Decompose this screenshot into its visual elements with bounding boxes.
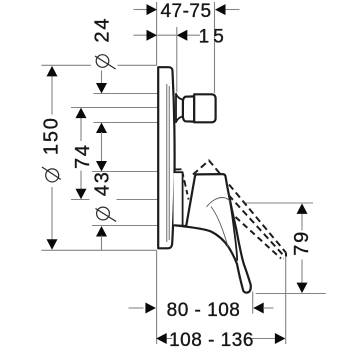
dimension 79 label [291,230,313,256]
dimension 79 top arrow [297,203,308,214]
lever axis extension line (y=198.5) [71,199,90,201]
wall plane extension line top (x=156.6) [156,2,158,65]
dimension 74 label [72,143,94,169]
dimension 74 top arrow [76,108,87,119]
dimension 15 right tail [187,34,200,36]
dimension 47-75 left arrow [147,4,158,15]
dimension 80-108 left arrow [145,303,156,314]
knob top extension line (y=93.5) [93,93,158,95]
dashed lever back edge over collar (open position) [175,169,189,199]
svg-text:24: 24 [92,17,114,43]
dimension 108-136 line right segment [252,338,276,340]
escutcheon plate [158,67,174,248]
dimension 15 left arrow [147,30,158,41]
dimension D150 bottom arrow [47,239,58,250]
dimension 15 span line [158,34,177,36]
dimension D24 bottom arrow [96,123,107,134]
lever collar [174,172,183,225]
dimension D43 bottom arrow [96,226,107,237]
dimension D150 label [40,116,62,182]
svg-text:79: 79 [291,230,313,256]
lever paddle edge line [229,196,237,261]
sleeve extension line (x=176.8) [176,27,178,93]
svg-text:47-75: 47-75 [160,1,211,22]
dashed lever top edge (open position) [193,161,286,253]
dashed lever tip cap (open position) [284,253,287,259]
dimension 47-75 right tail [224,9,240,11]
plate inner face line 2 [168,86,170,240]
dimension 80-108 left tail [129,307,144,309]
dimension 15 left tail [134,34,149,36]
lever body and arm (closed position) [175,174,251,293]
lever bottom extension line (y=225.5) [92,225,158,227]
dimension 108-136 right arrow [275,333,286,344]
dimension D24 top arrow [96,83,107,94]
dimension 74 line upper segment [80,118,82,142]
svg-text:43: 43 [92,170,114,196]
dimension 74 bottom arrow [76,189,87,200]
dimension D150 top arrow [47,66,58,77]
knob axis extension line (y=107.5) [71,107,158,109]
dimension D24 stub line [101,71,103,85]
dashed lever top extension line (y=203) [246,202,314,204]
dimension 79 bottom arrow [297,283,308,294]
wall plane extension line bottom (x=156.6) [156,251,158,345]
lever crease line upper [207,198,231,208]
dimension D24 label [92,17,116,69]
knob front extension line (x=214.5) [214,2,216,93]
dimension 108-136 left arrow [156,333,167,344]
dimension 47-75 right arrow [215,4,226,15]
dimension 80-108 right tail [263,307,274,309]
dashed lever tip extension line (x=285.7) [285,253,287,344]
dimension D43 top arrow [96,161,107,172]
solid lever tip extension line (y=293.5) [256,293,326,295]
dimension D150 line lower segment [51,187,53,242]
dimension 74 line lower segment [80,171,82,190]
dimension D43 bottom tail [101,236,103,251]
lever top extension line (y=171.5) [92,171,158,173]
lever crease line lower [211,207,228,248]
dimension 15 right arrow [177,30,188,41]
dashed lever lower edge (open position) [236,217,282,259]
shared tail between D24 and D43 arrows [101,132,103,162]
plate inner face line 1 [166,84,168,242]
knob bottom extension line (y=122.5) [93,122,158,124]
plate top extension line (y=66) [41,64,91,66]
valve knob grip ring [183,96,194,121]
svg-text:15: 15 [199,27,228,48]
svg-text:80 - 108: 80 - 108 [167,300,241,321]
dashed lever middle edge (open position) [229,195,285,257]
valve knob cone base [176,94,183,122]
svg-text:108 - 136: 108 - 136 [169,330,254,350]
dimension 108-136 line left segment [166,338,173,340]
dimension 79 line lower segment [301,260,303,284]
solid lever tip extension line (x=252.7) [252,292,254,314]
svg-text:150: 150 [40,116,62,155]
dimension D43 label [92,170,117,221]
dimension 80-108 right arrow [253,303,264,314]
valve knob body [194,94,215,122]
svg-text:74: 74 [72,143,94,169]
dimension 79 line upper segment [301,213,303,231]
dimension D150 line upper segment [51,76,53,115]
dimension 47-75 left tail [134,9,149,11]
plate bottom extension line (y=250.5) [41,249,157,251]
